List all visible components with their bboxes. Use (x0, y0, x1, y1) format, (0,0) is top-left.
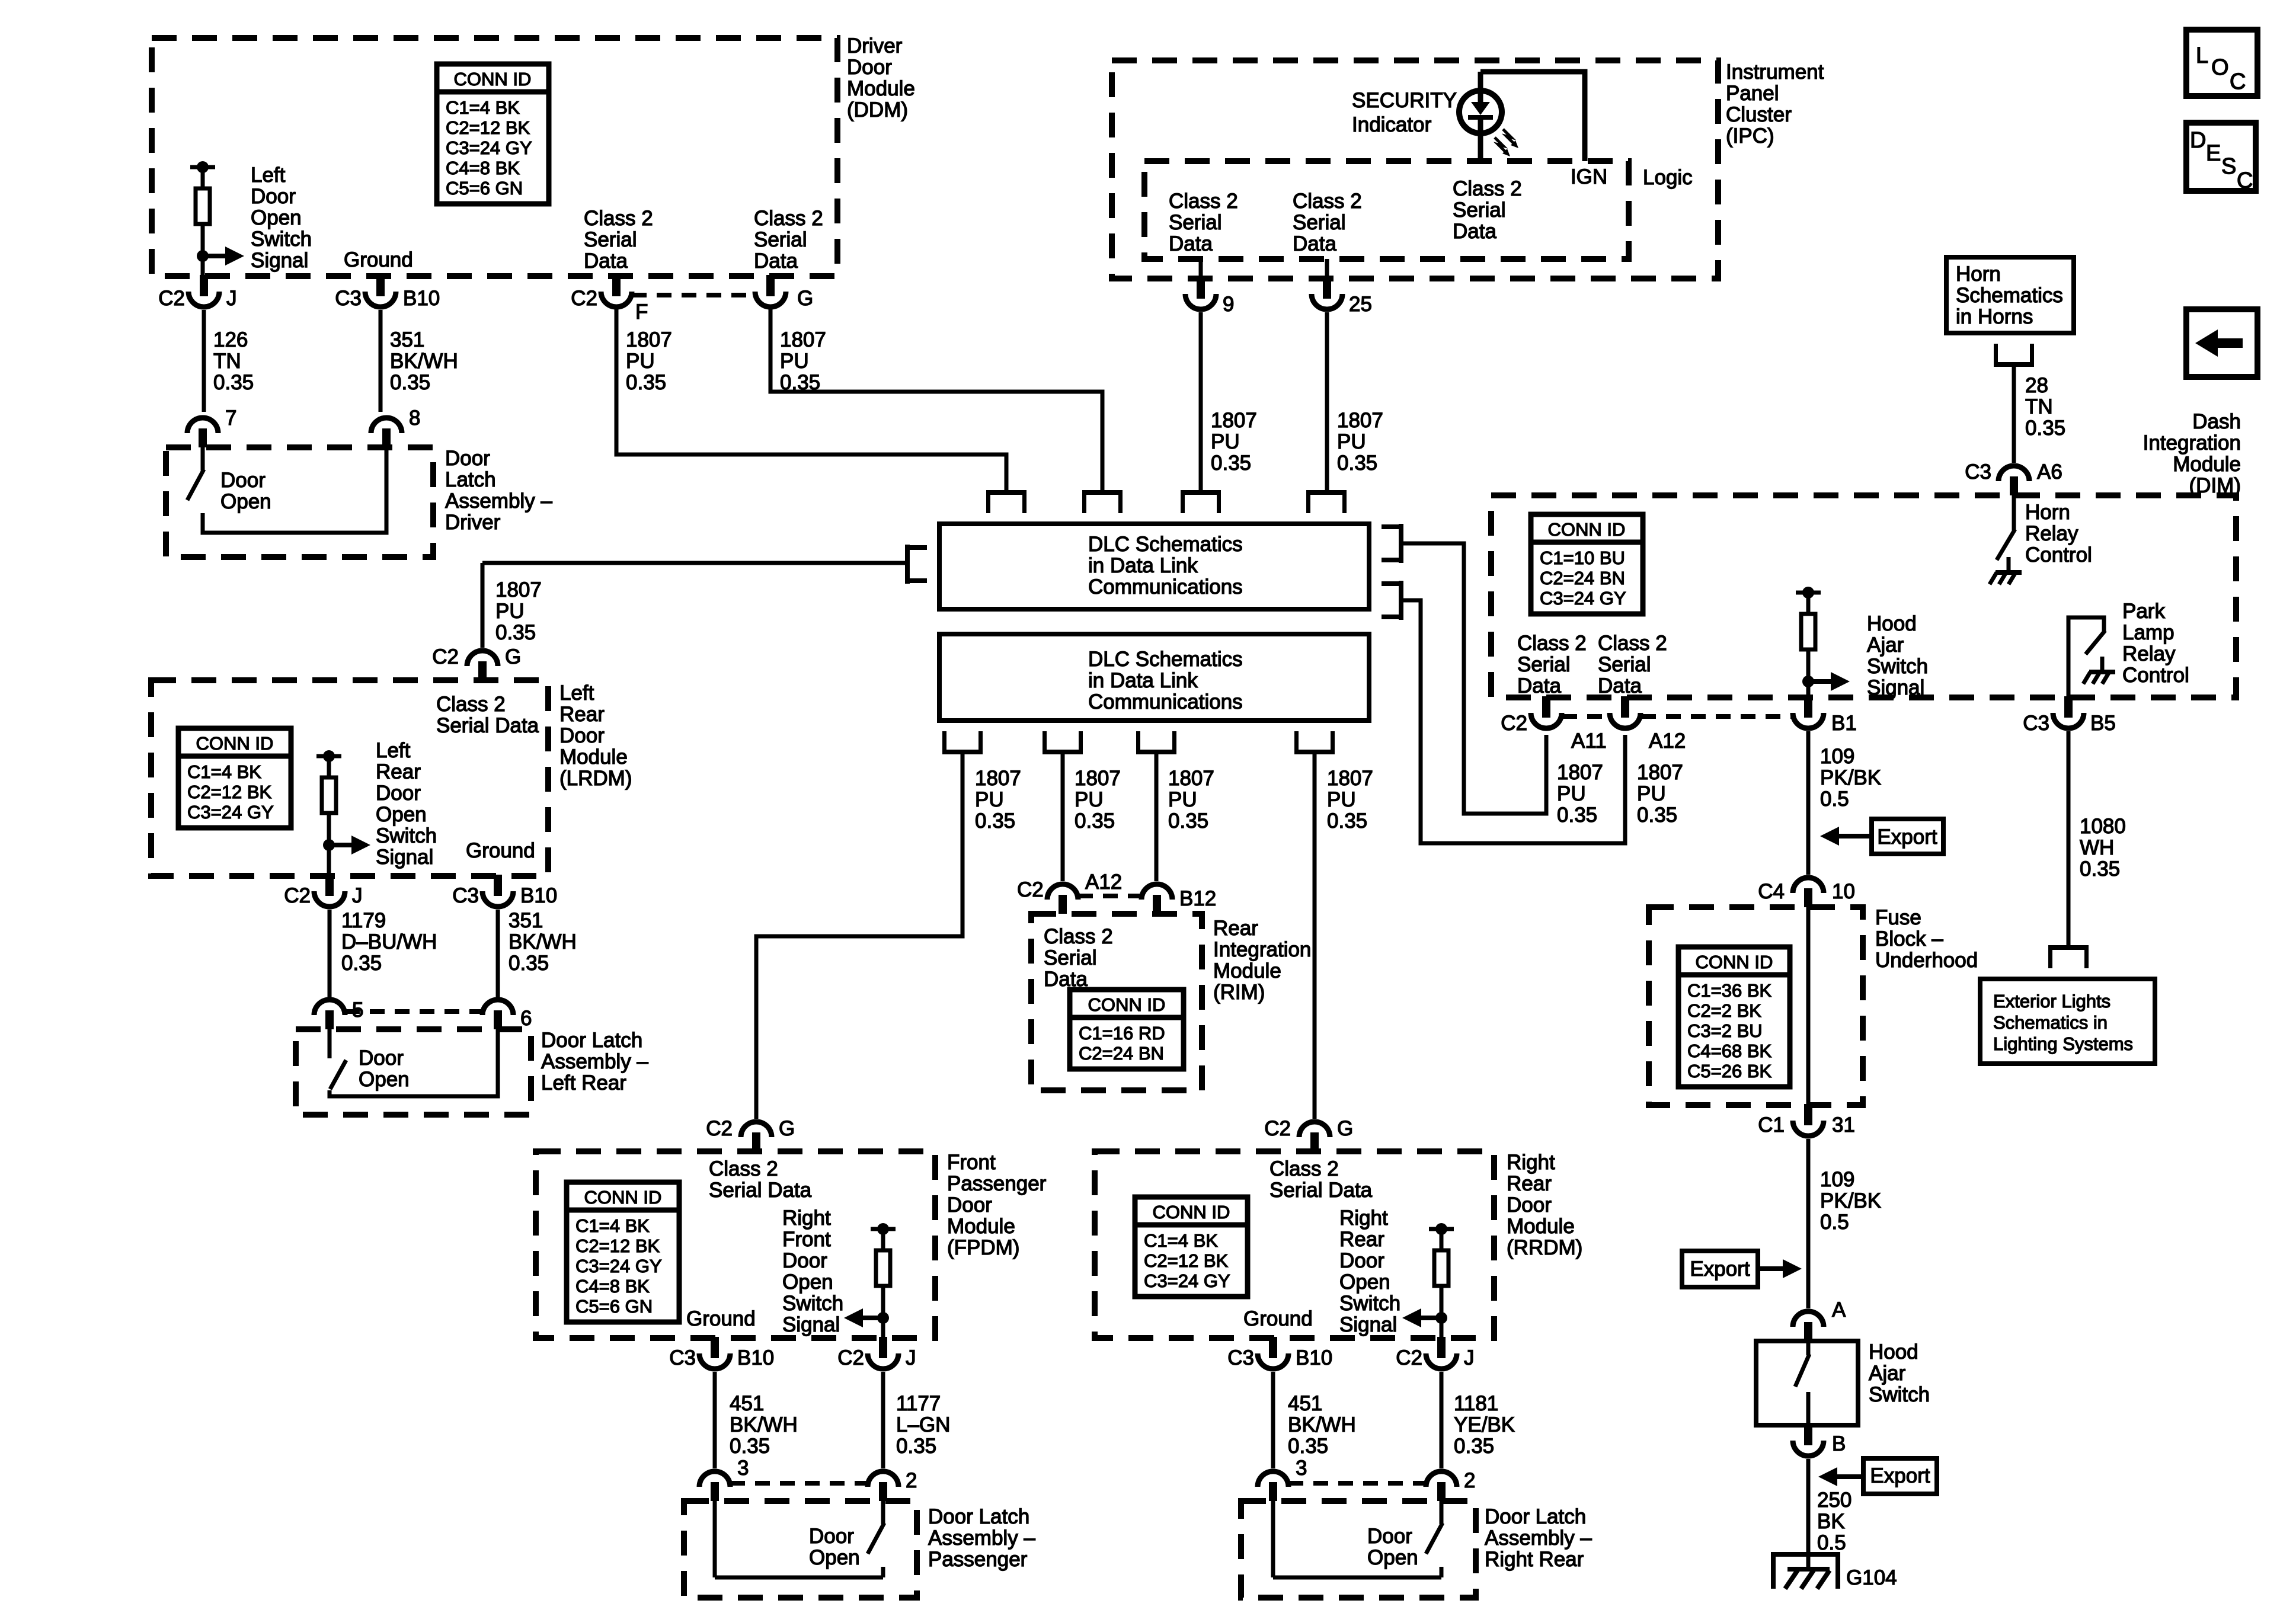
svg-text:C2: C2 (158, 287, 185, 310)
svg-text:Module: Module (2173, 453, 2241, 476)
svg-text:B5: B5 (2090, 712, 2116, 735)
svg-text:0.35: 0.35 (213, 371, 254, 394)
svg-text:C3: C3 (1227, 1346, 1254, 1369)
svg-text:C2=2 BK: C2=2 BK (1687, 1000, 1761, 1021)
svg-text:2: 2 (906, 1469, 917, 1492)
svg-text:Module: Module (847, 77, 915, 100)
svg-text:Rear: Rear (1213, 917, 1258, 940)
svg-text:25: 25 (1349, 293, 1372, 316)
svg-text:C3: C3 (1965, 460, 1991, 484)
svg-text:PU: PU (1637, 782, 1666, 805)
svg-text:Rear: Rear (376, 760, 421, 783)
svg-text:Signal: Signal (782, 1313, 840, 1336)
svg-text:(FPDM): (FPDM) (947, 1236, 1019, 1259)
svg-text:Serial: Serial (1517, 653, 1570, 676)
svg-text:Door Latch: Door Latch (928, 1505, 1029, 1528)
svg-text:Door Latch: Door Latch (541, 1029, 642, 1052)
svg-text:D–BU/WH: D–BU/WH (341, 930, 437, 953)
svg-text:Switch: Switch (251, 228, 312, 251)
svg-text:CONN ID: CONN ID (1696, 952, 1773, 972)
svg-text:B10: B10 (1296, 1346, 1332, 1369)
svg-text:Open: Open (251, 206, 302, 229)
svg-text:Schematics: Schematics (1956, 284, 2063, 307)
svg-text:(RRDM): (RRDM) (1507, 1236, 1582, 1259)
svg-text:C2: C2 (837, 1346, 864, 1369)
svg-text:Open: Open (359, 1068, 410, 1091)
svg-text:Door: Door (1367, 1525, 1412, 1548)
svg-text:Integration: Integration (1213, 938, 1311, 961)
svg-text:Horn: Horn (1956, 263, 2001, 286)
svg-text:BK: BK (1817, 1510, 1845, 1533)
svg-text:C2=12 BK: C2=12 BK (446, 117, 530, 138)
svg-text:A6: A6 (2037, 460, 2062, 484)
svg-text:3: 3 (1296, 1457, 1307, 1480)
svg-text:J: J (352, 884, 363, 907)
svg-text:Ground: Ground (686, 1307, 756, 1330)
svg-text:1080: 1080 (2080, 815, 2126, 838)
svg-text:1807: 1807 (1337, 409, 1383, 432)
svg-text:C1=36 BK: C1=36 BK (1687, 980, 1772, 1001)
svg-text:1177: 1177 (896, 1392, 941, 1415)
svg-text:1807: 1807 (1557, 761, 1603, 784)
svg-text:Right: Right (1507, 1151, 1555, 1174)
svg-text:Open: Open (376, 803, 427, 826)
svg-text:C2=24 BN: C2=24 BN (1540, 568, 1625, 588)
svg-text:Left: Left (376, 739, 411, 762)
svg-text:G: G (797, 287, 813, 310)
svg-text:Serial: Serial (1453, 199, 1505, 222)
svg-text:G: G (779, 1117, 795, 1140)
svg-text:2: 2 (1464, 1469, 1475, 1492)
svg-text:Ajar: Ajar (1869, 1362, 1906, 1385)
svg-text:0.35: 0.35 (730, 1435, 770, 1458)
svg-text:C1=4 BK: C1=4 BK (187, 761, 261, 782)
svg-text:Integration: Integration (2143, 431, 2241, 455)
svg-text:0.5: 0.5 (1820, 788, 1849, 811)
svg-text:1807: 1807 (1075, 767, 1121, 790)
svg-text:C4=8 BK: C4=8 BK (446, 158, 520, 178)
svg-text:Class 2: Class 2 (436, 693, 506, 716)
svg-text:Right: Right (1339, 1206, 1388, 1230)
svg-text:250: 250 (1817, 1489, 1851, 1512)
svg-text:D: D (2190, 128, 2206, 153)
svg-text:Data: Data (1169, 232, 1213, 255)
svg-text:C2: C2 (1501, 712, 1527, 735)
svg-text:0.35: 0.35 (1075, 809, 1115, 833)
svg-text:C5=26 BK: C5=26 BK (1687, 1061, 1772, 1081)
svg-text:WH: WH (2080, 836, 2114, 859)
svg-text:C2=12 BK: C2=12 BK (1144, 1250, 1229, 1271)
svg-text:9: 9 (1223, 293, 1234, 316)
svg-text:CONN ID: CONN ID (1088, 994, 1166, 1015)
svg-text:Park: Park (2122, 600, 2165, 623)
svg-text:0.35: 0.35 (1637, 804, 1677, 827)
svg-text:Assembly –: Assembly – (1485, 1526, 1592, 1550)
svg-text:Switch: Switch (1867, 655, 1928, 678)
svg-text:Open: Open (1367, 1546, 1418, 1569)
svg-text:Underhood: Underhood (1875, 949, 1978, 972)
svg-text:Control: Control (2122, 664, 2189, 687)
svg-text:C4=8 BK: C4=8 BK (575, 1276, 650, 1297)
svg-text:Serial: Serial (1044, 946, 1096, 969)
svg-text:Data: Data (584, 249, 628, 273)
svg-text:0.35: 0.35 (1337, 452, 1377, 475)
svg-text:Class 2: Class 2 (1169, 190, 1238, 213)
svg-text:1807: 1807 (975, 767, 1021, 790)
svg-text:PU: PU (626, 350, 655, 373)
svg-text:C3=24 GY: C3=24 GY (1540, 588, 1626, 609)
svg-text:(DDM): (DDM) (847, 98, 908, 121)
svg-text:L–GN: L–GN (896, 1413, 950, 1436)
svg-text:PU: PU (1327, 788, 1356, 811)
svg-text:Hood: Hood (1867, 612, 1917, 635)
svg-text:Indicator: Indicator (1352, 113, 1432, 136)
svg-text:Left: Left (559, 681, 594, 705)
svg-text:Module: Module (1507, 1215, 1575, 1238)
svg-text:Door: Door (782, 1249, 827, 1272)
svg-text:Ground: Ground (344, 248, 413, 271)
svg-text:BK/WH: BK/WH (730, 1413, 798, 1436)
svg-text:PU: PU (1211, 430, 1240, 453)
svg-text:31: 31 (1832, 1113, 1855, 1137)
svg-text:Open: Open (782, 1270, 833, 1294)
svg-text:Serial: Serial (584, 228, 637, 251)
svg-text:Switch: Switch (376, 824, 437, 847)
svg-text:J: J (1464, 1346, 1475, 1369)
svg-text:Assembly –: Assembly – (541, 1050, 648, 1073)
svg-text:C: C (2237, 168, 2253, 193)
svg-text:CONN ID: CONN ID (1548, 519, 1626, 540)
svg-text:0.5: 0.5 (1820, 1211, 1849, 1234)
svg-text:E: E (2206, 141, 2221, 166)
svg-text:Data: Data (1598, 674, 1642, 697)
svg-text:CONN ID: CONN ID (454, 69, 532, 89)
svg-text:Door: Door (559, 724, 605, 747)
svg-text:Communications: Communications (1088, 690, 1243, 713)
svg-text:B1: B1 (1831, 712, 1857, 735)
svg-text:Class 2: Class 2 (1453, 177, 1522, 200)
svg-text:Door: Door (1507, 1193, 1552, 1217)
svg-text:Left: Left (251, 164, 286, 187)
svg-text:Serial: Serial (1293, 211, 1345, 234)
svg-text:J: J (906, 1346, 916, 1369)
svg-text:Relay: Relay (2025, 522, 2078, 545)
svg-text:C3: C3 (335, 287, 362, 310)
svg-text:Exterior Lights: Exterior Lights (1993, 991, 2110, 1012)
svg-text:S: S (2221, 154, 2236, 179)
svg-text:CONN ID: CONN ID (196, 733, 274, 754)
svg-text:O: O (2211, 55, 2229, 80)
svg-text:C4: C4 (1758, 880, 1785, 903)
svg-text:Driver: Driver (847, 34, 903, 57)
svg-text:G104: G104 (1846, 1566, 1897, 1589)
svg-text:C1=16 RD: C1=16 RD (1079, 1023, 1165, 1044)
svg-text:Passenger: Passenger (928, 1548, 1028, 1571)
svg-text:Door: Door (445, 447, 490, 470)
svg-text:G: G (1337, 1117, 1353, 1140)
svg-text:3: 3 (737, 1457, 749, 1480)
svg-text:in Data Link: in Data Link (1088, 669, 1198, 692)
svg-text:Logic: Logic (1643, 166, 1693, 189)
svg-text:PU: PU (1075, 788, 1104, 811)
svg-text:C2: C2 (706, 1117, 733, 1140)
svg-text:C5=6 GN: C5=6 GN (575, 1296, 653, 1317)
svg-text:Door: Door (809, 1525, 854, 1548)
svg-text:Module: Module (1213, 959, 1281, 982)
svg-text:Horn: Horn (2025, 501, 2070, 524)
svg-text:PU: PU (495, 600, 525, 623)
svg-text:0.35: 0.35 (896, 1435, 936, 1458)
svg-text:0.5: 0.5 (1817, 1531, 1846, 1554)
svg-text:Left Rear: Left Rear (541, 1071, 626, 1094)
svg-text:F: F (635, 300, 648, 324)
svg-text:Passenger: Passenger (947, 1172, 1047, 1195)
svg-text:C3=2 BU: C3=2 BU (1687, 1020, 1763, 1041)
svg-text:Assembly –: Assembly – (445, 489, 552, 513)
svg-text:0.35: 0.35 (1327, 809, 1367, 833)
svg-text:Ground: Ground (466, 839, 535, 862)
svg-text:1807: 1807 (1327, 767, 1373, 790)
svg-text:Door: Door (251, 185, 296, 208)
svg-text:Serial: Serial (1169, 211, 1221, 234)
svg-text:PU: PU (780, 350, 809, 373)
svg-text:C2=24 BN: C2=24 BN (1079, 1043, 1164, 1064)
svg-text:28: 28 (2025, 374, 2048, 397)
svg-text:Driver: Driver (445, 511, 501, 534)
svg-text:Rear: Rear (1339, 1228, 1384, 1251)
svg-text:0.35: 0.35 (975, 809, 1015, 833)
svg-text:A12: A12 (1085, 870, 1122, 894)
svg-text:in Data Link: in Data Link (1088, 554, 1198, 577)
svg-text:B: B (1832, 1432, 1846, 1455)
svg-text:C3=24 GY: C3=24 GY (446, 137, 532, 158)
svg-text:Data: Data (1293, 232, 1336, 255)
svg-text:PU: PU (1337, 430, 1366, 453)
svg-text:Class 2: Class 2 (754, 207, 823, 230)
svg-text:Door: Door (1339, 1249, 1384, 1272)
svg-text:(RIM): (RIM) (1213, 981, 1265, 1004)
svg-text:Open: Open (809, 1546, 860, 1569)
svg-text:10: 10 (1832, 880, 1855, 903)
svg-text:BK/WH: BK/WH (509, 930, 577, 953)
svg-text:Class 2: Class 2 (1293, 190, 1362, 213)
svg-text:PU: PU (1557, 782, 1586, 805)
svg-text:A11: A11 (1571, 729, 1607, 753)
svg-text:Right: Right (782, 1206, 831, 1230)
svg-text:Switch: Switch (1869, 1383, 1930, 1406)
svg-text:451: 451 (1288, 1392, 1322, 1415)
svg-text:Rear: Rear (559, 703, 605, 726)
svg-text:BK/WH: BK/WH (390, 350, 458, 373)
svg-text:in Horns: in Horns (1956, 305, 2033, 328)
svg-text:Export: Export (1690, 1257, 1750, 1281)
svg-text:Front: Front (782, 1228, 831, 1251)
svg-text:DLC Schematics: DLC Schematics (1088, 648, 1243, 671)
svg-text:C2: C2 (1017, 878, 1044, 901)
svg-text:C3: C3 (2023, 712, 2049, 735)
svg-text:Serial Data: Serial Data (709, 1179, 812, 1202)
svg-text:C5=6 GN: C5=6 GN (446, 178, 523, 199)
svg-text:C3=24 GY: C3=24 GY (187, 802, 274, 822)
svg-text:L: L (2196, 43, 2208, 68)
svg-text:Module: Module (947, 1215, 1015, 1238)
svg-text:Data: Data (754, 249, 798, 273)
svg-text:1807: 1807 (1168, 767, 1214, 790)
svg-text:451: 451 (730, 1392, 764, 1415)
svg-text:Front: Front (947, 1151, 996, 1174)
svg-text:1807: 1807 (1211, 409, 1257, 432)
svg-text:C2: C2 (1264, 1117, 1291, 1140)
svg-text:Panel: Panel (1726, 82, 1779, 105)
svg-text:(DIM): (DIM) (2189, 474, 2241, 497)
svg-text:1807: 1807 (495, 578, 542, 601)
svg-text:Door Latch: Door Latch (1485, 1505, 1586, 1528)
svg-text:C3: C3 (669, 1346, 696, 1369)
svg-text:109: 109 (1820, 1168, 1854, 1191)
svg-text:Signal: Signal (376, 846, 433, 869)
svg-text:Export: Export (1870, 1464, 1930, 1487)
svg-text:1807: 1807 (1637, 761, 1683, 784)
svg-text:8: 8 (409, 407, 420, 430)
svg-text:TN: TN (213, 350, 241, 373)
svg-text:109: 109 (1820, 745, 1854, 768)
svg-text:1807: 1807 (626, 328, 672, 351)
svg-text:Door: Door (947, 1193, 992, 1217)
svg-text:Schematics in: Schematics in (1993, 1012, 2108, 1033)
svg-text:Door: Door (376, 782, 421, 805)
svg-text:A12: A12 (1649, 729, 1686, 753)
svg-text:Class 2: Class 2 (1598, 632, 1667, 655)
svg-text:G: G (505, 645, 521, 668)
svg-text:Data: Data (1517, 674, 1561, 697)
svg-text:Export: Export (1877, 825, 1937, 849)
svg-text:Cluster: Cluster (1726, 103, 1792, 126)
svg-text:351: 351 (390, 328, 424, 351)
svg-text:TN: TN (2025, 395, 2053, 418)
svg-text:Dash: Dash (2192, 410, 2241, 433)
svg-text:BK/WH: BK/WH (1288, 1413, 1356, 1436)
svg-text:PK/BK: PK/BK (1820, 1189, 1881, 1212)
svg-text:Ground: Ground (1243, 1307, 1313, 1330)
svg-text:1181: 1181 (1454, 1392, 1498, 1415)
svg-text:Assembly –: Assembly – (928, 1526, 1035, 1550)
svg-text:0.35: 0.35 (1288, 1435, 1328, 1458)
svg-text:0.35: 0.35 (2025, 417, 2065, 440)
svg-text:Relay: Relay (2122, 642, 2176, 665)
svg-text:Control: Control (2025, 543, 2092, 567)
svg-text:Class 2: Class 2 (584, 207, 653, 230)
svg-text:IGN: IGN (1571, 165, 1607, 188)
svg-text:Serial Data: Serial Data (1269, 1179, 1373, 1202)
svg-text:Latch: Latch (445, 468, 496, 491)
svg-text:Class 2: Class 2 (1044, 925, 1113, 948)
svg-text:C2: C2 (571, 287, 597, 310)
svg-text:0.35: 0.35 (390, 371, 430, 394)
svg-text:Lamp: Lamp (2122, 621, 2175, 644)
svg-text:0.35: 0.35 (509, 952, 549, 975)
svg-text:Switch: Switch (782, 1292, 843, 1315)
svg-text:Instrument: Instrument (1726, 60, 1824, 84)
svg-text:SECURITY: SECURITY (1352, 89, 1457, 112)
svg-text:(LRDM): (LRDM) (559, 767, 632, 790)
svg-text:C2: C2 (432, 645, 459, 668)
svg-text:C1=4 BK: C1=4 BK (446, 97, 520, 118)
svg-text:Communications: Communications (1088, 575, 1243, 599)
svg-text:Serial: Serial (1598, 653, 1651, 676)
svg-text:C1=4 BK: C1=4 BK (1144, 1230, 1218, 1251)
svg-text:Door: Door (847, 56, 892, 79)
svg-text:PK/BK: PK/BK (1820, 766, 1881, 789)
svg-text:C4=68 BK: C4=68 BK (1687, 1041, 1772, 1061)
svg-text:Fuse: Fuse (1875, 906, 1921, 929)
svg-text:Class 2: Class 2 (1517, 632, 1587, 655)
svg-text:Signal: Signal (1339, 1313, 1397, 1336)
svg-text:B10: B10 (737, 1346, 774, 1369)
svg-text:PU: PU (975, 788, 1004, 811)
svg-text:Block –: Block – (1875, 927, 1943, 950)
svg-text:Serial Data: Serial Data (436, 714, 539, 737)
svg-text:C2=12 BK: C2=12 BK (187, 782, 272, 802)
svg-text:DLC Schematics: DLC Schematics (1088, 533, 1243, 556)
svg-text:C1=4 BK: C1=4 BK (575, 1215, 650, 1236)
svg-text:126: 126 (213, 328, 248, 351)
svg-text:0.35: 0.35 (626, 371, 666, 394)
svg-text:Rear: Rear (1507, 1172, 1552, 1195)
svg-text:C1=10 BU: C1=10 BU (1540, 548, 1625, 568)
svg-text:Door: Door (359, 1046, 404, 1070)
svg-text:0.35: 0.35 (495, 621, 536, 644)
svg-text:Switch: Switch (1339, 1292, 1400, 1315)
svg-text:B10: B10 (520, 884, 557, 907)
svg-text:0.35: 0.35 (2080, 857, 2120, 881)
svg-text:B12: B12 (1179, 887, 1216, 910)
svg-text:1179: 1179 (341, 909, 386, 932)
svg-text:J: J (226, 287, 237, 310)
svg-text:Ajar: Ajar (1867, 633, 1904, 657)
svg-text:Module: Module (559, 745, 628, 769)
svg-text:Open: Open (220, 490, 271, 513)
svg-text:0.35: 0.35 (341, 952, 382, 975)
svg-text:Hood: Hood (1869, 1340, 1918, 1364)
svg-text:0.35: 0.35 (1211, 452, 1251, 475)
svg-text:CONN ID: CONN ID (1153, 1202, 1230, 1222)
svg-text:Right Rear: Right Rear (1485, 1548, 1584, 1571)
svg-text:351: 351 (509, 909, 543, 932)
svg-text:CONN ID: CONN ID (584, 1187, 662, 1208)
svg-text:1807: 1807 (780, 328, 826, 351)
svg-text:C2: C2 (1396, 1346, 1422, 1369)
svg-text:Lighting Systems: Lighting Systems (1993, 1033, 2133, 1054)
svg-text:Class 2: Class 2 (709, 1157, 778, 1180)
svg-text:YE/BK: YE/BK (1454, 1413, 1515, 1436)
svg-text:Open: Open (1339, 1270, 1390, 1294)
svg-text:PU: PU (1168, 788, 1197, 811)
svg-text:C3=24 GY: C3=24 GY (575, 1256, 662, 1276)
svg-text:Data: Data (1453, 220, 1496, 243)
svg-text:A: A (1832, 1298, 1846, 1321)
svg-text:C1: C1 (1758, 1113, 1785, 1137)
svg-text:B10: B10 (403, 287, 440, 310)
svg-text:C2: C2 (284, 884, 311, 907)
svg-text:C3=24 GY: C3=24 GY (1144, 1270, 1230, 1291)
svg-text:Door: Door (220, 469, 266, 492)
svg-text:Signal: Signal (251, 249, 308, 272)
svg-text:Serial: Serial (754, 228, 807, 251)
svg-text:(IPC): (IPC) (1726, 124, 1774, 148)
svg-text:0.35: 0.35 (1557, 804, 1597, 827)
svg-text:Signal: Signal (1867, 676, 1924, 699)
svg-text:C3: C3 (452, 884, 479, 907)
